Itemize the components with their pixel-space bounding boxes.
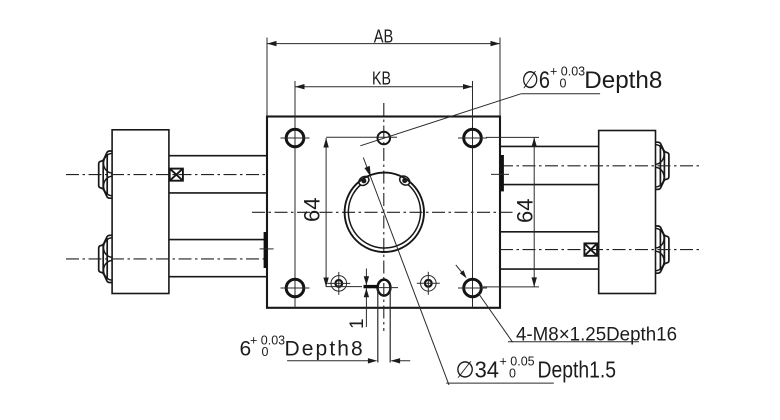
svg-text:KB: KB — [372, 68, 391, 89]
dimension AB — [267, 26, 500, 117]
svg-text:64: 64 — [513, 199, 538, 223]
small hole bottom-left inner — [327, 272, 350, 295]
snap ring lug hole right — [402, 178, 407, 183]
bolt head left top — [99, 151, 113, 198]
M8 hole bottom-right — [458, 279, 487, 297]
leader diameter6 depth8 (top) — [360, 94, 600, 146]
bolt head right top — [655, 142, 669, 189]
right end cap block — [599, 131, 656, 294]
M8 hole top-right — [458, 129, 487, 147]
key bar 1mm step — [364, 285, 378, 288]
svg-text:+ 0.03: + 0.03 — [550, 65, 585, 79]
svg-text:Depth1.5: Depth1.5 — [538, 357, 617, 383]
left top cylinder tube — [169, 156, 267, 193]
dowel hole bottom middle — [374, 280, 398, 363]
centerline left bottom cylinder — [66, 258, 267, 260]
breather plug right (boxed X) — [584, 243, 597, 255]
port boss left edge — [260, 232, 274, 268]
label diameter34 +0.05 depth1.5 — [456, 355, 617, 383]
svg-text:∅34: ∅34 — [456, 357, 500, 383]
right bottom cylinder tube — [500, 232, 599, 269]
vertical centerline — [383, 103, 385, 331]
dimension 64 left — [300, 138, 329, 287]
snap ring lug hole left — [361, 178, 366, 183]
snap ring — [348, 174, 420, 248]
leader diameter34 groove — [363, 158, 554, 386]
centerline right top cylinder — [500, 165, 702, 167]
left end cap block — [112, 130, 169, 294]
bolt head left bottom — [99, 235, 113, 282]
left bottom cylinder tube — [169, 240, 267, 277]
main body plate — [267, 117, 500, 308]
small hole bottom-right inner — [417, 272, 440, 295]
label diameter6 +0.03 depth8 — [522, 65, 663, 95]
svg-text:+ 0.05: + 0.05 — [500, 355, 535, 369]
dimension 64 right — [483, 137, 539, 287]
leader 4-M8 — [456, 265, 639, 342]
svg-text:Depth8: Depth8 — [285, 338, 365, 361]
center bore circle (snap ring groove) — [345, 173, 424, 252]
dimension KB — [295, 68, 473, 90]
svg-text:∅6: ∅6 — [522, 67, 551, 94]
dowel hole top middle — [326, 132, 397, 145]
svg-text:Depth8: Depth8 — [584, 67, 662, 94]
port boss right edge — [491, 155, 509, 191]
centerline right bottom cylinder — [500, 249, 702, 251]
svg-text:AB: AB — [374, 26, 394, 47]
centerline left top cylinder — [66, 174, 267, 176]
svg-text:4-M8×1.25Depth16: 4-M8×1.25Depth16 — [516, 325, 677, 346]
svg-text:1: 1 — [347, 318, 368, 329]
right top cylinder tube — [500, 146, 599, 184]
label 6 +0.03 depth8 (bottom left) — [240, 333, 365, 360]
svg-text:0: 0 — [262, 345, 269, 359]
svg-text:0: 0 — [560, 77, 567, 91]
dimension 1 (key height) — [347, 269, 369, 330]
dimension 6 slot (bottom leader with arrows) — [287, 358, 410, 363]
extension line to key bar — [326, 286, 362, 288]
bolt circle vertical line left — [294, 81, 296, 308]
bolt head right bottom — [655, 226, 669, 273]
svg-text:64: 64 — [300, 198, 325, 222]
bolt circle vertical line right — [472, 81, 474, 308]
svg-text:0: 0 — [509, 367, 516, 381]
main horizontal centerline — [252, 211, 516, 213]
M8 hole bottom-left — [281, 279, 310, 297]
breather plug left (boxed X) — [170, 169, 183, 181]
M8 hole top-left — [281, 129, 310, 147]
